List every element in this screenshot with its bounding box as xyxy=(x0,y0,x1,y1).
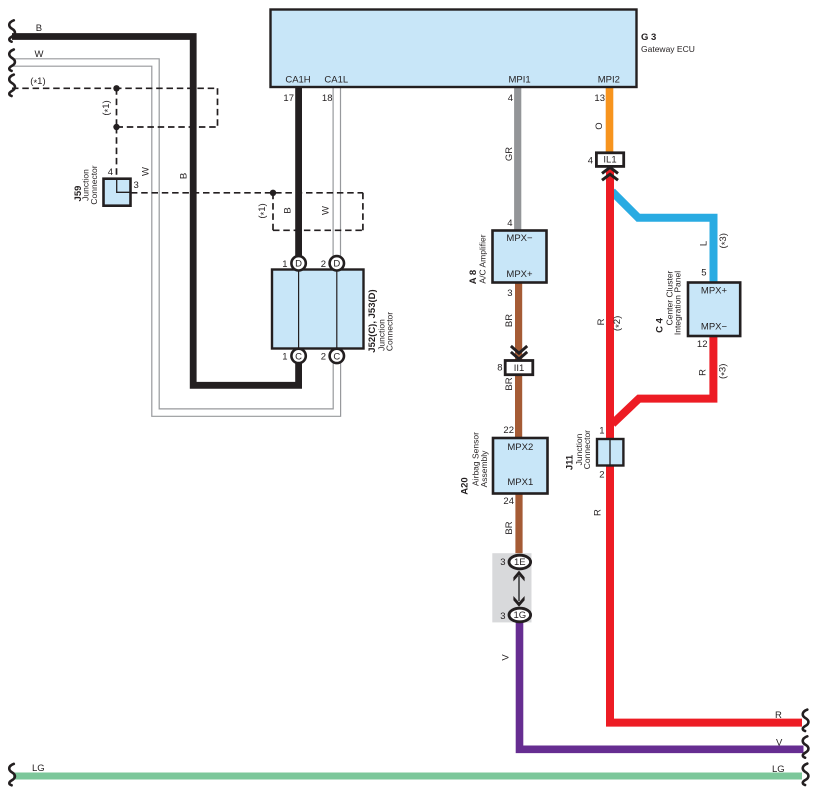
arrow up (1E) xyxy=(518,576,520,601)
wire B (CAN-H black wire) from left edge loop to J52 pin 1C xyxy=(12,37,299,386)
airbag sensor assembly A20 box xyxy=(493,438,548,494)
J52 divider line left xyxy=(298,270,300,349)
wire V (violet) from connector 1G to bottom right edge xyxy=(520,621,804,749)
connector J59 box xyxy=(104,179,131,206)
svg-text:MPI2: MPI2 xyxy=(598,75,620,86)
svg-text:4: 4 xyxy=(108,167,113,178)
wire W (CAN-L white wire) from left edge loop to J52 pin 2C xyxy=(12,63,337,413)
page break squiggle B left xyxy=(9,20,15,41)
svg-text:GR: GR xyxy=(504,147,515,161)
pin oval 1G xyxy=(509,608,531,622)
svg-text:MPX−: MPX− xyxy=(701,322,728,333)
svg-text:W: W xyxy=(321,206,332,215)
connector II1 box xyxy=(505,361,533,375)
svg-text:MPX+: MPX+ xyxy=(506,269,533,280)
pin oval 1E xyxy=(509,555,531,569)
page break squiggle LG left xyxy=(9,764,15,785)
junction connector J11 box xyxy=(597,439,623,466)
svg-text:CA1L: CA1L xyxy=(324,75,348,86)
svg-text:II1: II1 xyxy=(514,363,525,374)
pin circle 2C xyxy=(330,349,344,363)
svg-text:(*3): (*3) xyxy=(718,364,731,379)
svg-text:Connector: Connector xyxy=(89,165,99,204)
svg-text:12: 12 xyxy=(697,339,708,350)
chevron arrows below IL1 xyxy=(602,167,618,180)
svg-text:BR: BR xyxy=(504,521,515,534)
wire (*1) dashed shield line top-left xyxy=(12,87,218,89)
connector IL1 box xyxy=(596,153,623,167)
svg-text:R: R xyxy=(698,369,709,376)
junction dot on dashed box corner xyxy=(113,124,119,130)
svg-text:C: C xyxy=(333,351,340,362)
svg-text:22: 22 xyxy=(503,425,514,436)
svg-text:2: 2 xyxy=(321,259,326,270)
page break squiggle W left xyxy=(9,50,15,71)
chevron arrows above II1 xyxy=(511,346,527,359)
svg-text:5: 5 xyxy=(701,268,706,279)
page break squiggle V right xyxy=(803,736,809,757)
svg-text:G 3: G 3 xyxy=(641,32,656,43)
wire BR (brown) A20 pin 24 to connector 1E xyxy=(515,493,522,557)
wire L (light blue) branch from R to C4 pin 5 xyxy=(612,192,714,285)
svg-text:W: W xyxy=(35,49,44,60)
junction dot on dashed line xyxy=(113,85,119,91)
svg-text:8: 8 xyxy=(497,363,502,374)
shield dashed box 2 left edge xyxy=(272,193,274,231)
svg-text:BR: BR xyxy=(504,377,515,390)
svg-text:CA1H: CA1H xyxy=(285,75,310,86)
svg-text:Integration Panel: Integration Panel xyxy=(673,271,683,335)
svg-text:Assembly: Assembly xyxy=(479,450,489,488)
wire R (red) return loop C4 pin 12 to main R wire xyxy=(613,334,714,424)
svg-text:A/C Amplifier: A/C Amplifier xyxy=(478,234,488,283)
wire shield drain to J59 pin 4 (dashed) xyxy=(116,127,118,179)
svg-text:LG: LG xyxy=(772,764,785,775)
arrow down (1G) xyxy=(513,596,524,607)
svg-text:MPX1: MPX1 xyxy=(507,477,533,488)
svg-text:B: B xyxy=(283,207,294,213)
svg-text:L: L xyxy=(699,241,710,246)
wire GR (gray) from MPI1 pin 4 to A8 xyxy=(514,87,521,232)
Gateway ECU box G3 xyxy=(271,10,637,88)
svg-text:3: 3 xyxy=(500,557,505,568)
J11 divider xyxy=(609,439,611,466)
junction dot on dashed box 2 corner xyxy=(270,190,276,196)
svg-text:A20: A20 xyxy=(460,477,471,494)
svg-text:4: 4 xyxy=(508,93,513,104)
page break squiggle LG right xyxy=(803,764,809,785)
svg-text:MPX−: MPX− xyxy=(506,233,533,244)
svg-text:V: V xyxy=(776,738,783,749)
svg-text:(*1): (*1) xyxy=(30,76,45,89)
wire LG (light green) bottom full width xyxy=(13,773,802,780)
svg-text:R: R xyxy=(775,710,782,721)
svg-text:V: V xyxy=(501,654,512,661)
svg-text:24: 24 xyxy=(503,496,514,507)
svg-text:1G: 1G xyxy=(513,610,526,621)
svg-text:MPX2: MPX2 xyxy=(507,442,533,453)
page break squiggle R right xyxy=(803,710,809,731)
wire R (red) main from IL1 to J11 pin 1 xyxy=(606,169,614,440)
pin circle 1D xyxy=(291,256,305,270)
shield dashed box 2 bottom edge xyxy=(273,229,363,231)
svg-text:B: B xyxy=(36,23,42,34)
connector pass-through gray block xyxy=(492,553,531,622)
svg-text:3: 3 xyxy=(507,288,512,299)
connector J59 cavity lines xyxy=(117,180,130,192)
page break squiggle (*1) left xyxy=(9,75,15,96)
wire from J59 pin 3 to shield dashed box 2 (dashed) xyxy=(131,192,363,194)
svg-text:2: 2 xyxy=(321,351,326,362)
wire BR (brown) A8 pin 3 to connector II1 xyxy=(515,281,522,361)
svg-text:4: 4 xyxy=(507,218,512,229)
J52 divider line right xyxy=(336,270,338,349)
shield dashed box 1 bottom edge xyxy=(117,126,218,128)
svg-text:(*1): (*1) xyxy=(257,203,270,218)
svg-text:LG: LG xyxy=(32,763,45,774)
svg-text:MPI1: MPI1 xyxy=(509,75,531,86)
svg-text:2: 2 xyxy=(599,470,604,481)
center cluster integration panel C4 box xyxy=(688,283,740,337)
svg-text:1E: 1E xyxy=(514,557,526,568)
svg-text:1: 1 xyxy=(282,259,287,270)
svg-text:(*1): (*1) xyxy=(101,100,114,115)
svg-text:C: C xyxy=(295,351,302,362)
svg-text:4: 4 xyxy=(588,156,593,167)
svg-text:1: 1 xyxy=(282,351,287,362)
wire R (red) from J11 pin 2 to bottom right edge xyxy=(610,465,802,723)
svg-text:Connector: Connector xyxy=(582,430,592,469)
svg-text:O: O xyxy=(594,122,605,129)
svg-text:17: 17 xyxy=(283,93,294,104)
shield dashed box 2 right edge xyxy=(362,193,364,231)
shield dashed box 1 right edge xyxy=(217,88,219,127)
svg-text:1: 1 xyxy=(599,426,604,437)
svg-text:IL1: IL1 xyxy=(603,155,616,166)
svg-text:D: D xyxy=(295,259,302,270)
svg-text:3: 3 xyxy=(500,611,505,622)
wire O (orange) MPI2 pin 13 to IL1 xyxy=(606,87,614,154)
svg-text:MPX+: MPX+ xyxy=(701,286,728,297)
svg-text:B: B xyxy=(179,173,190,179)
svg-text:(*2): (*2) xyxy=(612,316,625,331)
wire CA1H (black) from Gateway ECU pin 17 to J52 pin 1D xyxy=(295,87,302,258)
svg-text:(*3): (*3) xyxy=(718,233,731,248)
svg-text:R: R xyxy=(596,318,607,325)
svg-text:3: 3 xyxy=(134,180,139,191)
A/C amplifier A8 box xyxy=(493,231,547,283)
svg-text:18: 18 xyxy=(322,93,333,104)
pin circle 2D xyxy=(330,256,344,270)
pin circle 1C xyxy=(291,349,305,363)
shield dashed box 1 left edge xyxy=(116,88,118,127)
wire BR (brown) II1 to A20 pin 22 xyxy=(515,373,522,439)
junction connector J52(C),J53(D) box xyxy=(272,270,364,349)
svg-text:W: W xyxy=(141,167,152,176)
svg-text:Gateway ECU: Gateway ECU xyxy=(641,44,695,54)
svg-text:BR: BR xyxy=(504,314,515,327)
svg-text:D: D xyxy=(333,259,340,270)
wire CA1L (white) from Gateway ECU pin 18 to J52 pin 2D xyxy=(332,87,341,258)
svg-text:13: 13 xyxy=(594,93,605,104)
svg-text:R: R xyxy=(593,509,604,516)
svg-text:Connector: Connector xyxy=(385,312,395,351)
